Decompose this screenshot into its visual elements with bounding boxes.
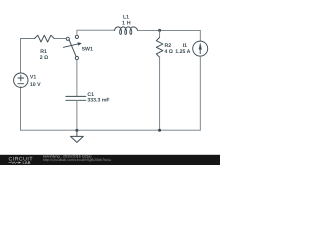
svg-text:1 H: 1 H (122, 21, 131, 27)
resistor R1 (35, 35, 55, 42)
svg-text:I1: I1 (183, 43, 187, 49)
svg-text:10 V: 10 V (30, 82, 41, 88)
wire switch bottom to capacitor (76, 60, 78, 97)
footer bar (0, 155, 220, 165)
node junction top (158, 29, 161, 32)
footer text lines (43, 155, 111, 163)
svg-text:SW1: SW1 (82, 47, 93, 53)
switch SW1 (63, 35, 81, 59)
wire top-left horizontal to R1 (21, 38, 35, 40)
wire V1 bottom to bottom rail (20, 87, 22, 130)
ground symbol (71, 130, 84, 142)
svg-text:2 Ω: 2 Ω (40, 55, 48, 61)
node junction bottom R2 (158, 129, 161, 132)
wire top rail down to R2 (159, 30, 161, 37)
svg-text:333.3 mF: 333.3 mF (87, 98, 109, 104)
inductor L1 (114, 27, 137, 35)
svg-text:V1: V1 (30, 75, 36, 81)
svg-text:4 Ω: 4 Ω (165, 49, 173, 55)
capacitor C1 (66, 96, 86, 100)
resistor R2 (156, 37, 163, 57)
wire switch top stub to top rail (77, 30, 115, 35)
node junction bottom C1/ground (75, 129, 78, 132)
svg-text:R2: R2 (165, 43, 172, 49)
svg-text:http://circuitlab.com/circuit/: http://circuitlab.com/circuit/n5gfk26bb7… (43, 158, 111, 162)
wire L1 to right corner (138, 29, 201, 31)
footer logo CircuitLab (9, 157, 34, 165)
voltage source V1 (14, 73, 28, 87)
wire capacitor to bottom rail (76, 100, 78, 130)
wire right vertical to I1 top (199, 30, 201, 40)
labels (30, 15, 191, 104)
svg-text:LAB: LAB (23, 160, 31, 165)
wire R2 to bottom rail (159, 57, 161, 130)
current source I1 (193, 41, 208, 56)
wire R1 to switch (54, 38, 66, 40)
bottom rail wire (21, 129, 201, 131)
wire left vertical from V1 top to top-left corner (20, 39, 22, 74)
wire I1 bottom to bottom rail (199, 56, 201, 130)
svg-text:1.25 A: 1.25 A (175, 49, 190, 55)
